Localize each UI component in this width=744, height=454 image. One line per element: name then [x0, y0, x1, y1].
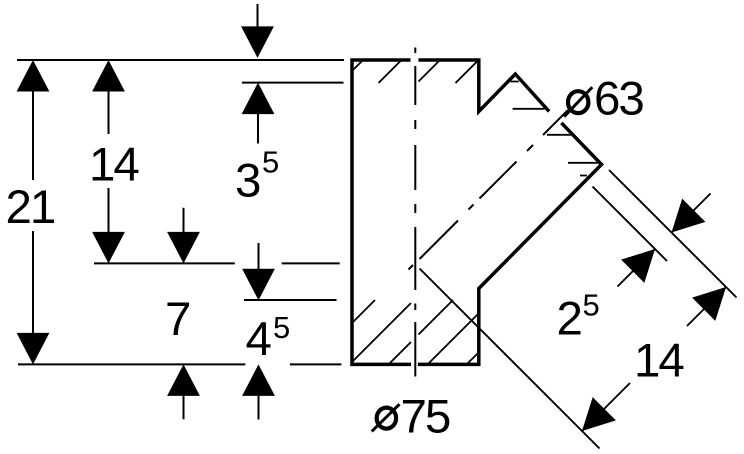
arrow down, dim 3.5 upper (above top line) [241, 26, 274, 58]
extension line of spigot zone inner boundary (for dim 2.5) [593, 187, 668, 262]
extension line y=82.6 (3.5 socket depth) [242, 82, 344, 84]
svg-text:63: 63 [594, 72, 643, 125]
arrow SW, dim 14 diagonal lower [582, 397, 616, 431]
extension line y=300 (4.5 socket depth) [244, 299, 337, 301]
svg-text:75: 75 [401, 391, 450, 444]
arrow NE, dim 2.5 lower (on inner boundary extension) [621, 249, 655, 283]
dimension 3.5 stems [257, 4, 260, 144]
svg-text:5: 5 [583, 288, 600, 323]
mid extension line y=263.4 (junction height) [94, 262, 340, 264]
svg-text:5: 5 [262, 145, 279, 180]
branch spigot zone hatching (horizontal ticks) [510, 82, 600, 176]
arrow down, dim 21 bottom [17, 333, 50, 365]
arrow up, dim 3.5 lower (below 82.6 line) [242, 83, 275, 115]
arrow up, dim 21 top [17, 60, 50, 92]
dimension line 14 diagonal [582, 287, 726, 431]
top socket hatching (45-deg lines) [352, 60, 479, 83]
arrow NE, dim 14 diagonal upper [692, 287, 726, 321]
pipe body outline (branch end face and lower right wall) [418, 123, 602, 365]
pipe body outline (thick cut profile, right/branch part) [418, 60, 549, 112]
svg-text:2: 2 [557, 293, 582, 346]
dimension 21 stem [32, 91, 34, 333]
dimension 14 stem (left) [108, 91, 110, 232]
top extension line y=60 [17, 59, 344, 61]
label diameter 75 symbol [372, 404, 400, 431]
svg-text:3: 3 [235, 155, 260, 208]
svg-text:14: 14 [634, 334, 684, 387]
arrow down, dim 14 bottom [92, 232, 125, 264]
arrow up, dim 7 bottom (below bottom line) [167, 364, 200, 396]
arrow up, dim 14 top [92, 60, 125, 92]
svg-text:4: 4 [246, 313, 272, 366]
svg-text:7: 7 [165, 293, 190, 346]
dimension line 2.5 (tails) [618, 194, 711, 287]
arrow SW, dim 2.5 upper (on end face extension) [672, 199, 706, 233]
label diameter 63 symbol [564, 87, 592, 117]
extension line through branch end face (for dims 2.5 and 14) [609, 170, 737, 298]
bottom extension line y=364.4 [18, 363, 341, 365]
svg-text:21: 21 [6, 181, 55, 234]
pipe body outline (left part) [352, 60, 411, 364]
arrow down, dim 4.5 upper (above 300 line) [242, 269, 275, 301]
dimension 7 stems [183, 208, 185, 420]
arrow up, dim 4.5 lower (below bottom line) [242, 364, 275, 396]
main vertical centerline (dash-dot) [414, 48, 416, 377]
svg-text:14: 14 [89, 138, 139, 191]
svg-text:5: 5 [273, 310, 290, 345]
arrow down, dim 7 top (above mid line) [167, 232, 200, 264]
bottom socket hatching (45-deg lines) [352, 300, 479, 364]
extension line through junction, perpendicular to branch axis (for dim 14 diagonal) [420, 269, 600, 449]
dimension 4.5 stems [258, 243, 260, 420]
branch 45-degree centerline (dash-dot on x+y=678) [409, 110, 569, 270]
